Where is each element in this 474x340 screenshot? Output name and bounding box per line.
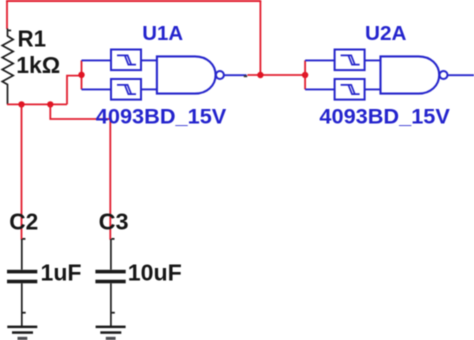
wire bottom main horizontal [7, 103, 67, 105]
capacitor C2 plate 1 [7, 270, 37, 274]
U2A nand gate body [381, 56, 440, 93]
wire U2A box2 to gate [365, 88, 381, 90]
ground C3 bar2 [100, 331, 121, 334]
capacitor C2 bottom lead [21, 283, 23, 327]
capacitor C3 top lead [110, 239, 112, 270]
wire U1A box2 to gate [141, 88, 157, 90]
svg-text:U1A: U1A [142, 22, 183, 45]
node junction C2 [18, 101, 24, 107]
wire U2A output [448, 74, 474, 76]
ground C2 bar1 [7, 326, 37, 329]
U2A schmitt glyph 1 [341, 55, 360, 64]
U1A schmitt glyph 1 [117, 55, 136, 64]
wire U1A input pin 2 [82, 88, 112, 90]
capacitor C3 plate 1 [95, 270, 125, 274]
node feedback junction [257, 72, 263, 78]
svg-text:1kΩ: 1kΩ [16, 52, 60, 78]
wire U2A input pin 2 [305, 88, 335, 90]
wire top-left vertical to resistor [6, 0, 8, 29]
svg-text:C2: C2 [9, 208, 38, 234]
U1A schmitt box 2 [111, 79, 141, 100]
wire U2A input vertical [304, 60, 306, 89]
svg-text:1uF: 1uF [41, 260, 82, 286]
wire U2A input pin 1 [305, 59, 335, 61]
U2A schmitt glyph 2 [341, 85, 360, 94]
wire U1A output to U2A [247, 74, 305, 76]
svg-text:10uF: 10uF [128, 260, 182, 286]
U1A nand gate body [157, 56, 216, 93]
U2A schmitt box 1 [335, 50, 365, 71]
U2A schmitt box 2 [335, 79, 365, 100]
U1A schmitt glyph 2 [117, 85, 136, 94]
capacitor C3 bottom lead [110, 283, 112, 327]
resistor R1 [2, 29, 13, 105]
wire C2 drop [21, 104, 23, 239]
wire U2A box1 to gate [365, 59, 381, 61]
wire U1A box1 to gate [141, 59, 157, 61]
wire U1A input vertical [81, 60, 83, 89]
node junction C3 branch [47, 101, 53, 107]
ground C3 bar1 [96, 326, 126, 329]
wire feedback vertical down to U1A output [259, 1, 261, 75]
U1A output bubble [216, 71, 224, 79]
wire U1A output [224, 74, 247, 76]
node U2A input junction [302, 72, 308, 78]
svg-text:C3: C3 [99, 208, 129, 234]
ground C3 bar3 [106, 337, 116, 340]
wire riser to U1A input [67, 76, 82, 105]
ground C2 bar3 [18, 337, 28, 340]
U1A schmitt box 1 [111, 50, 141, 71]
resistor R1 pin tick [8, 30, 11, 32]
ground C2 bar2 [12, 331, 33, 334]
wire top feedback horizontal [6, 0, 261, 2]
capacitor C2 pin tick bottom [23, 312, 26, 314]
capacitor C2 pin tick top [22, 238, 25, 240]
svg-text:U2A: U2A [365, 22, 407, 45]
U2A output bubble [440, 71, 448, 79]
wire U1A input pin 1 [82, 59, 112, 61]
U1A output pin tick [244, 75, 247, 77]
node U1A input junction [78, 72, 84, 78]
wire C3 branch route [50, 104, 110, 239]
svg-text:4093BD_15V: 4093BD_15V [319, 104, 450, 128]
capacitor C3 pin tick top [112, 238, 115, 240]
svg-text:4093BD_15V: 4093BD_15V [96, 104, 227, 128]
capacitor C2 top lead [21, 239, 23, 270]
capacitor C3 plate 2 [95, 280, 125, 284]
capacitor C2 plate 2 [7, 280, 37, 284]
svg-text:R1: R1 [18, 26, 47, 52]
capacitor C3 pin tick bottom [112, 312, 115, 314]
